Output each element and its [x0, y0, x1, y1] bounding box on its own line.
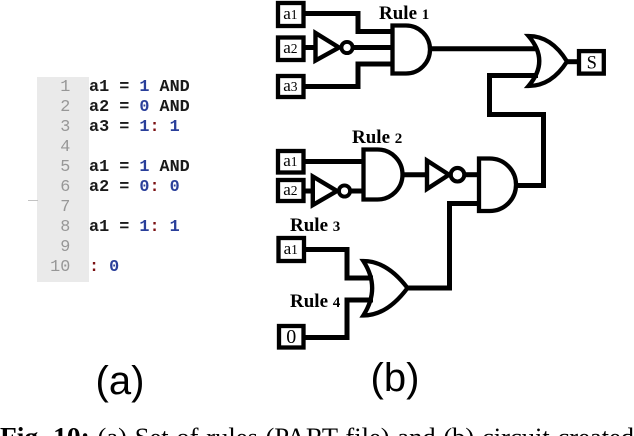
- input box a1 (Rule 3): [279, 238, 305, 261]
- wire A1 output to OR O1 top input: [430, 46, 538, 51]
- NOT gate N3 (rule output inverter): [427, 161, 464, 190]
- sub-figure label (b): [370, 356, 420, 401]
- wire O2 output up to AND A3 bottom input: [408, 204, 480, 289]
- AND gate A2 (Rule 2): [364, 150, 403, 200]
- input box 0 (Rule 4): [279, 326, 304, 348]
- wire a2 (Rule 2) to NOT N2: [303, 189, 314, 194]
- svg-text:Rule 4: Rule 4: [290, 291, 341, 312]
- OR gate O2 (Rules 3/4): [363, 261, 407, 316]
- figure caption (clipped): [0, 423, 634, 436]
- wire a1 (Rule 3) to OR O2 top input: [302, 250, 373, 279]
- svg-text:a1: a1: [283, 151, 297, 170]
- svg-text:a2: a2: [283, 180, 297, 199]
- input box a3 (Rule 1): [278, 76, 304, 97]
- input box a1 (Rule 1): [278, 3, 304, 26]
- svg-text:a3: a3: [283, 76, 298, 95]
- input box a1 (Rule 2): [278, 151, 304, 173]
- AND gate A1 (Rule 1): [393, 26, 431, 74]
- wire N2 output to AND A2 bottom input: [350, 189, 363, 194]
- wire A3 output up to OR O1 bottom input: [490, 76, 544, 186]
- sub-figure label (a): [95, 359, 145, 404]
- NOT gate N1 (Rule 1 a2 inverter): [316, 33, 353, 61]
- svg-text:a1: a1: [284, 239, 298, 258]
- svg-text:S: S: [587, 54, 597, 74]
- svg-text:0: 0: [286, 326, 296, 348]
- svg-text:a1: a1: [283, 4, 297, 23]
- code listing background gutter: [37, 77, 89, 282]
- wire N1 output to AND A1 middle input: [353, 45, 393, 50]
- wire O1 output to S box: [567, 59, 579, 64]
- input box a2 (Rule 2): [278, 180, 304, 201]
- wire N3 output to AND A3 top input: [464, 172, 479, 177]
- svg-text:Rule 2: Rule 2: [352, 127, 402, 148]
- svg-text:Rule 1: Rule 1: [379, 3, 429, 24]
- input box a2 (Rule 1): [278, 38, 304, 61]
- wire a2 to NOT N1: [302, 45, 316, 50]
- svg-text:Rule 3: Rule 3: [290, 215, 340, 236]
- wire a1 (Rule 2) to AND A2 top input: [303, 159, 364, 164]
- output box S: [579, 51, 604, 74]
- NOT gate N2 (Rule 2 a2 inverter): [313, 177, 350, 206]
- AND gate A3 (combiner): [479, 159, 516, 212]
- wire 0 (Rule 4) to OR O2 bottom input: [302, 300, 373, 338]
- wire a3 to AND A1 bottom input: [302, 64, 393, 87]
- wire a1 to AND A1 top input: [302, 14, 393, 32]
- OR gate O1 (final output OR): [529, 36, 568, 86]
- svg-text:a2: a2: [283, 38, 297, 57]
- wire A2 output to NOT N3: [403, 172, 428, 177]
